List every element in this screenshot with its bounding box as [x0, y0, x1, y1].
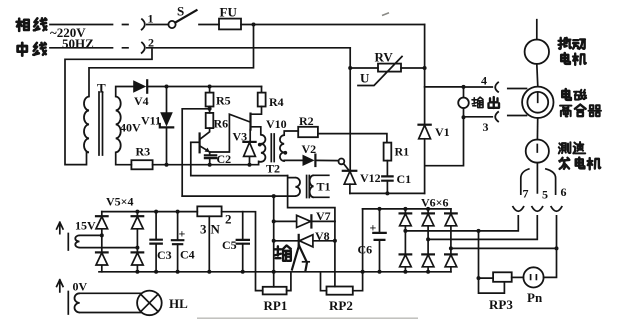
node rail N: [207, 270, 211, 274]
node lineC Pn: [555, 246, 559, 250]
T1 secondary stub top: [314, 174, 329, 176]
node v5rail right col: [135, 210, 139, 214]
label 电磁离合器: [560, 89, 601, 116]
wire node4 feed: [425, 86, 464, 88]
diode V5b: [132, 216, 144, 229]
connector cup 5: [532, 206, 544, 211]
svg-text:R3: R3: [136, 145, 151, 159]
wire switch to FU: [199, 24, 219, 26]
svg-text:1: 1: [148, 12, 154, 26]
lamp feed bottom: [80, 312, 141, 314]
wire node3 to V1 bottom: [425, 117, 464, 166]
transformer T1 secondary winding: [310, 175, 314, 197]
arrow up 0V: [57, 280, 63, 292]
transformer T secondary 40V winding: [116, 97, 121, 153]
svg-text:S: S: [177, 4, 184, 19]
node RV tap: [348, 66, 352, 70]
svg-text:R4: R4: [269, 95, 284, 109]
wire neutral lead-in: [50, 47, 128, 49]
diode V6d: [400, 254, 412, 266]
resistor R6: [206, 109, 214, 128]
resistor R3: [131, 160, 152, 169]
wire V1 column upper: [424, 25, 426, 125]
diode V5c: [96, 252, 108, 265]
T2 polarity dot right: [283, 151, 287, 155]
connector socket 1: [141, 19, 145, 31]
wire secondary top to V4: [116, 87, 134, 97]
wire secondary bottom to R3: [116, 152, 132, 164]
svg-text:C4: C4: [180, 248, 195, 262]
svg-text:RV: RV: [375, 50, 394, 65]
label 中线 (neutral line): [18, 43, 46, 56]
svg-text:C1: C1: [397, 172, 412, 186]
node 3: [462, 115, 466, 119]
node 4: [462, 85, 466, 89]
arrow up 15V: [57, 222, 63, 233]
diode V7: [297, 215, 312, 227]
label 输出 (output): [472, 97, 499, 108]
diode V8: [299, 235, 313, 247]
wire RP3 drop: [478, 231, 480, 278]
node FU junction: [252, 23, 256, 27]
0V winding: [68, 292, 79, 315]
svg-text:V6×6: V6×6: [421, 196, 449, 210]
node lineC col3: [449, 246, 453, 250]
wire R2 to R1: [318, 134, 387, 143]
svg-text:40V: 40V: [120, 121, 141, 135]
svg-text:C6: C6: [358, 243, 373, 257]
tacho inner mark: [536, 145, 538, 153]
label 相线 (phase line): [17, 18, 47, 30]
svg-text:Pn: Pn: [527, 290, 543, 305]
wire FU to V1 column (phase top rail): [241, 24, 425, 26]
svg-text:V5×4: V5×4: [106, 195, 134, 209]
clutch coil lead top: [508, 88, 527, 90]
switch S: [168, 10, 196, 28]
transformer T2 core: [271, 134, 274, 162]
V6 bridge top rail: [363, 208, 451, 210]
phase line B: [428, 216, 537, 240]
V6 column 3: [450, 209, 452, 272]
zener V11: [160, 87, 173, 165]
lamp feed top: [80, 292, 141, 294]
diode V6c: [445, 213, 457, 225]
node v6 col1 top: [403, 207, 407, 211]
amplifier N box: [197, 206, 221, 216]
wire N pin2 to RP1 left: [222, 212, 263, 291]
wire N bottom pin: [208, 216, 210, 271]
diode V6e: [422, 254, 434, 266]
node RP3 left: [477, 276, 481, 280]
shaft clutch-tacho: [536, 118, 538, 140]
wire neutral branch to primary bottom: [65, 48, 152, 165]
node R5 bottom: [208, 107, 212, 111]
phase line C: [451, 216, 557, 249]
lamp HL: [137, 291, 162, 316]
node rail C6: [378, 270, 382, 274]
node rail C4: [176, 270, 180, 274]
wire V12 bottom rail: [350, 192, 425, 194]
wire RV feed: [350, 67, 378, 69]
wire RV to V1 column: [401, 67, 425, 69]
node V7 left: [272, 219, 276, 223]
diode V6f: [445, 254, 457, 266]
connector socket 4: [495, 82, 499, 93]
node lineB col2: [426, 237, 430, 241]
node rail V6 col2: [426, 270, 430, 274]
wire V7 line: [274, 220, 335, 222]
svg-text:FU: FU: [220, 5, 238, 20]
tacho lead left: [521, 169, 529, 194]
node V11 top: [165, 85, 169, 89]
node v6 col2 top: [426, 207, 430, 211]
wire phase drop to transformer primary: [89, 25, 254, 97]
wire Q1 base feed: [191, 142, 288, 175]
transistor V10 (UJT): [251, 114, 261, 135]
bridge V5 right column: [136, 212, 138, 272]
potentiometer RP1: [263, 272, 291, 295]
input plug 入: [292, 246, 309, 271]
diode V5a: [96, 216, 108, 229]
node lineA col1: [403, 229, 407, 233]
svg-text:4: 4: [481, 74, 487, 88]
wire output 3: [464, 116, 493, 118]
tacho lead center: [536, 163, 538, 193]
V6 column 2: [427, 209, 429, 272]
node R1/C1 bottom: [385, 191, 389, 195]
svg-text:RP3: RP3: [489, 297, 513, 312]
connector cup 7: [513, 206, 525, 211]
svg-text:3: 3: [483, 120, 489, 134]
bottom dc rail: [99, 271, 451, 273]
capacitor C4: [172, 212, 183, 272]
diode V6b: [422, 213, 434, 225]
wire neutral column to V12 anode-bar: [349, 48, 351, 171]
wire gate to V12: [344, 164, 349, 171]
svg-text:T2: T2: [266, 162, 280, 176]
svg-text:N: N: [211, 222, 221, 237]
connector cup 6: [551, 206, 563, 211]
svg-text:5: 5: [542, 188, 548, 202]
svg-text:C5: C5: [222, 238, 237, 252]
node summing-V7V8 left: [272, 194, 276, 198]
node rail C5: [241, 270, 245, 274]
wire socket1 to switch: [147, 24, 169, 26]
wire 40V rail (V4 to R5/R4 tops): [147, 86, 261, 88]
svg-text:C2: C2: [217, 152, 232, 166]
V6 column 1: [404, 209, 406, 272]
wire T1 primary top feedback: [288, 176, 335, 222]
node 15V bottom: [135, 246, 139, 250]
svg-text:V4: V4: [134, 94, 149, 108]
shaft motor-clutch: [537, 64, 538, 87]
motor drive shaft top: [536, 20, 538, 40]
svg-text:V12: V12: [360, 171, 381, 185]
svg-text:HL: HL: [169, 296, 188, 311]
wire T1 primary bottom to summing line: [182, 195, 295, 197]
transformer T2 primary winding: [259, 135, 266, 162]
transformer T primary winding: [84, 97, 89, 153]
node lineA RP3 drop: [477, 229, 481, 233]
T2 polarity dot left: [258, 143, 262, 147]
resistor R4: [251, 87, 266, 115]
resistor R5: [206, 87, 214, 109]
node rail-V3: [248, 163, 252, 167]
bridge V5 left column: [101, 212, 103, 272]
transformer T2 secondary winding: [280, 135, 284, 161]
svg-text:V8: V8: [315, 229, 330, 243]
wire R5-node to base column: [182, 109, 209, 196]
faint scan line: [197, 317, 418, 319]
capacitor C2: [205, 152, 216, 165]
svg-text:V1: V1: [435, 125, 450, 139]
node RV-V1 column: [423, 66, 427, 70]
potentiometer RP2: [321, 209, 363, 295]
wire phase lead-in: [50, 24, 128, 26]
wire V7V8 right column to RP2 wiper: [334, 221, 336, 286]
clutch coil lead bottom: [508, 115, 527, 117]
node v5rail C3: [154, 210, 158, 214]
svg-text:R2: R2: [299, 114, 314, 128]
svg-text:V10: V10: [266, 117, 287, 131]
node rail C3: [154, 270, 158, 274]
gate terminal circle: [339, 159, 345, 165]
phase line A: [405, 216, 518, 231]
svg-text:R5: R5: [216, 94, 231, 108]
diode V3: [243, 130, 255, 165]
clutch inner mark: [537, 93, 539, 103]
svg-text:R1: R1: [395, 145, 410, 159]
wire RP3 to Pn: [512, 276, 524, 278]
label 拖动电机: [559, 38, 586, 65]
svg-text:V11: V11: [141, 114, 161, 128]
capacitor C1: [382, 161, 392, 194]
capacitor C5: [237, 212, 249, 272]
node rail V6 col1: [403, 270, 407, 274]
tachogenerator 测速发电机: [526, 140, 549, 163]
wire output 4: [464, 86, 493, 88]
output meter circle: [458, 87, 469, 117]
node V8 left: [272, 239, 276, 243]
node 15V top: [100, 233, 104, 237]
node v5rail C4: [176, 210, 180, 214]
svg-text:V7: V7: [316, 209, 331, 223]
rheostat RP3: [479, 272, 512, 293]
svg-text:7: 7: [523, 187, 529, 201]
svg-text:V3: V3: [233, 130, 248, 144]
svg-text:+: +: [370, 221, 377, 235]
wire V8 line: [274, 240, 335, 242]
label 测速发电机: [559, 142, 600, 169]
svg-text:R6: R6: [214, 117, 229, 131]
15V winding: [68, 234, 79, 251]
svg-text:T: T: [97, 81, 106, 96]
wire Pn to line C: [544, 248, 557, 277]
label 输 (input): [275, 246, 291, 261]
wire Q1 emitter to V10 emitter: [210, 114, 250, 152]
T1 secondary stub bottom: [314, 196, 329, 198]
resistor R2: [298, 127, 318, 137]
transformer T1 core: [307, 176, 310, 198]
svg-text:RP1: RP1: [264, 298, 288, 313]
node rail bridge right: [135, 270, 139, 274]
capacitor C3: [150, 212, 161, 272]
wire V2 to gate terminal: [315, 159, 338, 161]
rectifier bridge V5 top rail: [102, 211, 198, 213]
svg-text:U: U: [360, 71, 370, 86]
wire common rail (R3 to T2 primary bottom): [153, 161, 259, 164]
node rail feedback column: [361, 270, 365, 274]
diode V5d: [132, 252, 144, 265]
varistor RV: [358, 57, 402, 86]
diode V2: [303, 155, 316, 166]
node rail-C2: [208, 163, 212, 167]
connector socket 2: [141, 42, 145, 54]
wire T2 sec top to R2: [284, 131, 298, 135]
artifact dash: [382, 13, 389, 16]
svg-text:2: 2: [225, 212, 232, 227]
wire T2 sec bottom to V2: [284, 159, 302, 162]
meter Pn: [523, 267, 543, 287]
node rail crossing RP1 wiper: [272, 270, 276, 274]
transistor Q1: [191, 128, 210, 152]
fuse FU: [219, 19, 241, 30]
svg-text:15V: 15V: [75, 219, 96, 233]
resistor R1: [384, 143, 392, 161]
clutch 电磁离合器 outer: [522, 87, 553, 118]
svg-text:V2: V2: [302, 142, 317, 156]
connector socket 3: [495, 111, 499, 122]
node rail-V11: [165, 163, 169, 167]
capacitor C6: [373, 209, 385, 272]
wire V7V8 left column: [273, 196, 275, 287]
svg-text:RP2: RP2: [329, 298, 353, 313]
node R5 top: [208, 85, 212, 89]
svg-text:3: 3: [200, 222, 207, 237]
wire 15V top to bridge: [80, 234, 102, 236]
motor 拖动电机: [525, 40, 549, 64]
wire neutral main run: [147, 47, 350, 49]
svg-text:50HZ: 50HZ: [62, 36, 94, 51]
tacho lead right: [546, 169, 556, 194]
svg-text:0V: 0V: [73, 280, 88, 294]
thyristor V12: [343, 171, 357, 194]
transformer T core: [99, 92, 103, 155]
clutch inner: [527, 92, 548, 113]
wire 15V bottom to bridge: [80, 247, 138, 249]
transformer T1 primary winding: [295, 178, 300, 196]
svg-text:C3: C3: [157, 248, 172, 262]
node V8 right: [333, 239, 337, 243]
diode V1: [419, 125, 431, 194]
node c6 top: [378, 207, 382, 211]
diode V4: [133, 80, 147, 92]
svg-text:+: +: [179, 227, 186, 241]
svg-text:6: 6: [561, 185, 567, 199]
diode V6a: [400, 213, 412, 225]
svg-text:T1: T1: [317, 180, 331, 194]
